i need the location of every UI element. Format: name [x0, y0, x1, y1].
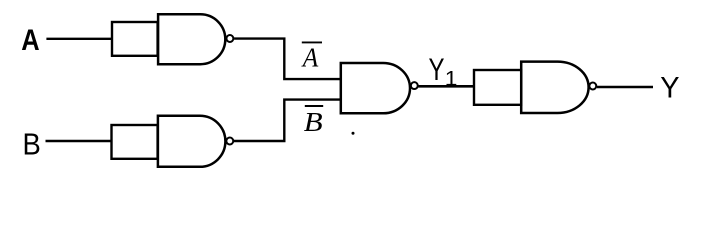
wire A input [46, 38, 113, 40]
U1 NAND body [158, 14, 225, 64]
svg-text:Y: Y [429, 51, 445, 87]
U3 NAND body [341, 63, 410, 113]
U4 output bubble [589, 83, 596, 90]
U4 NAND body [521, 62, 588, 113]
stray dot artifact [352, 132, 355, 135]
NAND gate U3 [341, 63, 418, 113]
U3 output bubble [411, 82, 418, 89]
svg-text:B: B [304, 106, 323, 137]
NAND gate U4 (output inverter) [474, 62, 596, 113]
U2 NAND body [158, 116, 226, 167]
svg-text:Y: Y [660, 72, 679, 105]
wire U3 output to U4 input [418, 85, 475, 88]
node label Y1 [429, 51, 458, 90]
wire U2 output to U3 bottom input [234, 100, 342, 141]
svg-text:A: A [301, 41, 319, 72]
U2 input box [112, 125, 158, 159]
node label A-bar overline [302, 41, 322, 43]
U1 input box [112, 22, 158, 56]
wire B input [46, 140, 113, 142]
svg-text:A: A [21, 24, 39, 57]
wire Y output [597, 86, 653, 88]
U4 input box [474, 70, 521, 105]
NAND gate U2 (B inverter) [112, 116, 234, 167]
node label B-bar overline [305, 105, 323, 107]
U1 output bubble [226, 35, 233, 42]
svg-text:B: B [23, 126, 41, 161]
wire U1 output to U3 top input [234, 39, 342, 80]
U2 output bubble [226, 138, 233, 145]
NAND gate U1 (A inverter) [112, 14, 233, 64]
